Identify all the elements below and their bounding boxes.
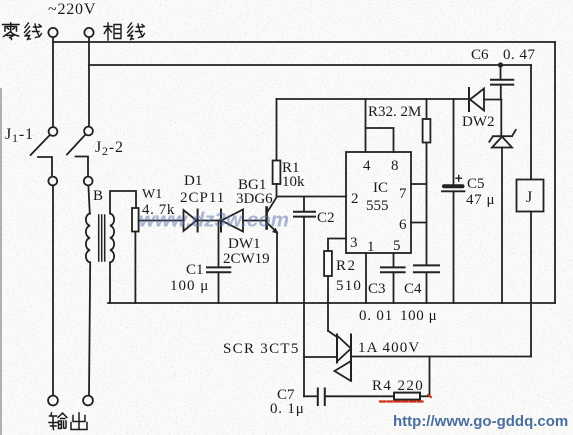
diode DW2 xyxy=(469,88,501,111)
zener DW2 lower xyxy=(489,100,515,304)
svg-text:B: B xyxy=(93,188,103,204)
capacitor C1 100u xyxy=(207,221,230,304)
wire pin4 to Vcc xyxy=(365,99,367,152)
wire pin8 link xyxy=(366,128,394,152)
svg-text:4: 4 xyxy=(363,158,371,174)
wire secondary bottom to rail xyxy=(109,262,111,303)
svg-text:R4 220: R4 220 xyxy=(372,378,424,394)
svg-text:0. 01: 0. 01 xyxy=(359,308,393,324)
svg-text:W1: W1 xyxy=(142,187,162,202)
thyristor SCR 3CT5 xyxy=(335,335,352,382)
node output terminal right xyxy=(83,396,93,406)
wire DW1 to BG1 base xyxy=(243,220,266,222)
svg-text:2CW19: 2CW19 xyxy=(223,251,270,267)
svg-text:5: 5 xyxy=(393,238,401,254)
transformer core xyxy=(99,215,105,261)
svg-text:C1: C1 xyxy=(186,262,204,278)
wire SCR cathode xyxy=(351,356,531,358)
C5 plus sign xyxy=(456,176,461,182)
potentiometer W1 4.7k xyxy=(132,208,139,303)
transformer B secondary winding xyxy=(110,214,114,263)
wire J2-2 to transformer xyxy=(88,186,89,214)
capacitor C5 47u xyxy=(442,99,465,303)
wire R4 riser xyxy=(429,357,431,397)
svg-text:3DG6: 3DG6 xyxy=(236,191,273,207)
svg-text:47 μ: 47 μ xyxy=(466,192,495,208)
svg-text:DW1: DW1 xyxy=(228,236,261,252)
resistor R4 220 xyxy=(394,393,430,400)
svg-text:C3: C3 xyxy=(368,281,386,297)
node live terminal xyxy=(84,28,93,37)
node output terminal left xyxy=(48,396,58,406)
svg-text:10k: 10k xyxy=(282,174,305,190)
svg-text:0. 47: 0. 47 xyxy=(503,47,536,63)
wire right frame edge xyxy=(554,42,556,303)
svg-text:D1: D1 xyxy=(184,173,202,189)
wire live drop xyxy=(88,37,90,126)
relay coil J xyxy=(517,65,544,357)
wire R1 to pin2 xyxy=(277,196,347,198)
svg-text:R2: R2 xyxy=(336,258,357,274)
svg-text:555: 555 xyxy=(366,198,389,214)
svg-text:J1-1: J1-1 xyxy=(5,126,34,145)
left scan edge xyxy=(0,88,2,435)
IC U1 555 box xyxy=(346,152,411,253)
wire transformer to output xyxy=(89,262,90,395)
wire W1 to D1 xyxy=(139,220,184,222)
wire pin7 stub xyxy=(411,183,427,185)
resistor R1 10k xyxy=(273,99,281,197)
switch J1-1 xyxy=(31,127,58,185)
zener DW1 2CW19 xyxy=(221,210,243,232)
svg-text:2: 2 xyxy=(351,191,359,207)
svg-text:J: J xyxy=(526,189,532,206)
svg-text:R32. 2M: R32. 2M xyxy=(368,104,421,120)
switch J2-2 xyxy=(67,127,93,186)
svg-text:DW2: DW2 xyxy=(462,114,495,130)
svg-text:8: 8 xyxy=(391,158,399,174)
svg-text:www.dz3w.com: www.dz3w.com xyxy=(139,209,289,232)
resistor R3 2.2M xyxy=(423,99,431,265)
resistor R2 510 xyxy=(324,251,332,331)
label lingxian neutral (CJK drawn) xyxy=(3,23,20,40)
svg-text:7: 7 xyxy=(399,186,407,202)
label xiangxian live (CJK drawn) xyxy=(104,23,121,40)
wire R2 to SCR anode xyxy=(328,331,337,337)
transformer B primary winding xyxy=(86,214,90,263)
label IC555 pins xyxy=(350,158,407,255)
svg-text:~220V: ~220V xyxy=(48,1,96,18)
svg-text:C2: C2 xyxy=(317,210,335,226)
wire pin6 stub xyxy=(411,222,427,224)
wire D1 to DW1 xyxy=(198,220,221,222)
svg-text:SCR 3CT5: SCR 3CT5 xyxy=(223,341,300,357)
capacitor C4 100u xyxy=(414,265,439,303)
svg-text:C6: C6 xyxy=(471,47,489,63)
wire Vcc rail xyxy=(277,98,470,100)
capacitor C6 0.47 xyxy=(491,65,513,100)
svg-text:http://www.go-gddq.com: http://www.go-gddq.com xyxy=(393,413,568,430)
svg-text:6: 6 xyxy=(399,217,407,233)
svg-text:2CP11: 2CP11 xyxy=(180,190,225,206)
svg-text:J2-2: J2-2 xyxy=(95,139,124,158)
capacitor C2 xyxy=(294,197,315,397)
svg-text:C5: C5 xyxy=(467,176,485,192)
wire J1-1 to output xyxy=(52,186,54,396)
capacitor C7 0.1u xyxy=(304,389,394,406)
svg-text:IC: IC xyxy=(373,180,388,196)
transistor BG1 3DG6 xyxy=(267,197,278,303)
wire neutral top rail xyxy=(53,41,555,43)
label shuchu output (CJK drawn) xyxy=(49,413,67,430)
svg-text:510: 510 xyxy=(336,278,362,294)
svg-text:C4: C4 xyxy=(404,281,422,297)
wire pin1 to ground xyxy=(365,253,367,303)
wire secondary top to W1 xyxy=(110,191,136,214)
svg-text:3: 3 xyxy=(350,235,358,251)
node C6 junction dot xyxy=(498,62,503,67)
svg-text:100 μ: 100 μ xyxy=(170,278,209,294)
red underline mark xyxy=(380,400,424,402)
wire bottom ground rail xyxy=(108,302,555,304)
svg-text:0. 1μ: 0. 1μ xyxy=(270,401,305,417)
wire SCR gate xyxy=(304,356,336,358)
node neutral terminal xyxy=(48,28,57,37)
diode D1 2CP11 xyxy=(184,210,198,232)
wire live rail xyxy=(89,64,531,66)
wire pin3 to R2 xyxy=(328,239,346,252)
svg-text:1: 1 xyxy=(367,239,375,255)
wire neutral drop xyxy=(52,37,54,127)
capacitor C3 0.01 xyxy=(381,253,405,303)
svg-text:100 μ: 100 μ xyxy=(400,308,437,324)
svg-text:1A 400V: 1A 400V xyxy=(358,340,420,356)
